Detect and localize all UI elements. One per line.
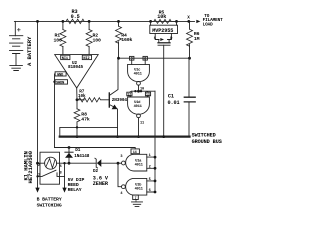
svg-text:2N3904: 2N3904 bbox=[112, 98, 128, 103]
wire mosfet gate to ground bus bbox=[163, 45, 165, 136]
svg-text:10k: 10k bbox=[157, 14, 166, 20]
transistor Q1 2N3904 bbox=[108, 93, 110, 107]
svg-text:1M: 1M bbox=[194, 36, 200, 42]
svg-text:1: 1 bbox=[149, 154, 151, 158]
pin GND box bbox=[55, 72, 66, 76]
pin 14 box bbox=[131, 149, 139, 154]
gate U1a 4011 bbox=[126, 154, 147, 171]
svg-text:3: 3 bbox=[120, 155, 122, 159]
svg-text:6: 6 bbox=[149, 189, 151, 193]
op-amp U2 818045 bbox=[55, 55, 98, 88]
svg-text:LOAD: LOAD bbox=[203, 23, 214, 28]
resistor R8 bbox=[76, 100, 78, 137]
wire emitter net lid bbox=[60, 127, 118, 136]
svg-text:4011: 4011 bbox=[135, 164, 143, 168]
svg-text:GND: GND bbox=[57, 73, 64, 77]
svg-text:47k: 47k bbox=[81, 116, 90, 122]
battery B1 A battery bbox=[14, 21, 16, 35]
svg-text:160k: 160k bbox=[121, 37, 132, 43]
svg-text:NI1: NI1 bbox=[62, 57, 68, 61]
pin 9 box bbox=[130, 56, 134, 60]
wire collector node rail bbox=[119, 57, 190, 59]
svg-text:HE721A0500: HE721A0500 bbox=[27, 150, 34, 183]
svg-text:11: 11 bbox=[140, 121, 144, 125]
svg-text:A BATTERY: A BATTERY bbox=[26, 36, 33, 66]
ground logic bbox=[136, 200, 137, 202]
transistor Q2 MVP2955 bbox=[151, 21, 177, 25]
relay switch bbox=[38, 170, 65, 176]
pin 8 box bbox=[143, 56, 147, 60]
pin 7 box bbox=[133, 195, 139, 199]
wire U1a inputs bbox=[147, 157, 155, 168]
node top rail arrow to load bbox=[196, 20, 200, 23]
svg-text:SWITCHING: SWITCHING bbox=[37, 203, 62, 209]
resistor R5 bbox=[151, 19, 177, 23]
svg-text:D1: D1 bbox=[75, 148, 81, 153]
label battery plus bbox=[17, 28, 20, 31]
resistor R3 bbox=[63, 19, 89, 23]
pin NI2 bbox=[82, 55, 91, 59]
capacitor C1 bbox=[188, 58, 190, 97]
pin NI1 bbox=[61, 55, 70, 59]
svg-text:1: 1 bbox=[38, 172, 40, 176]
node U1c out tie bbox=[130, 91, 155, 92]
svg-text:4011: 4011 bbox=[135, 188, 143, 192]
gate U1b 4011 bbox=[126, 178, 147, 195]
ground battery bbox=[10, 66, 23, 71]
svg-text:D2: D2 bbox=[93, 169, 99, 174]
diode D2 zener bbox=[69, 162, 96, 164]
svg-text:5: 5 bbox=[149, 178, 151, 182]
resistor R6 bbox=[189, 21, 191, 58]
pin SHDN box bbox=[55, 80, 67, 84]
svg-text:4011: 4011 bbox=[134, 72, 142, 76]
wire vdd rail bbox=[55, 148, 136, 149]
svg-text:4011: 4011 bbox=[134, 105, 142, 109]
wire U1d output to bus bbox=[138, 118, 140, 137]
svg-text:X: X bbox=[187, 16, 190, 21]
svg-text:4: 4 bbox=[120, 192, 123, 196]
svg-text:B BATTERY: B BATTERY bbox=[37, 197, 62, 203]
wire left bus down to B battery arrow bbox=[37, 21, 39, 187]
wire top rail bbox=[14, 20, 194, 22]
wire opamp pins to vdd rail bbox=[54, 74, 57, 148]
svg-text:1N4148: 1N4148 bbox=[74, 154, 90, 159]
gate U1c 4011 bbox=[128, 64, 150, 81]
switched ground bus bbox=[60, 135, 190, 137]
wire gates input feed bbox=[154, 91, 156, 192]
wire opamp output bbox=[76, 88, 78, 100]
pin 13 box bbox=[145, 92, 150, 96]
svg-text:RELAY: RELAY bbox=[68, 187, 82, 193]
node X bbox=[187, 20, 190, 23]
svg-text:SHDN: SHDN bbox=[56, 81, 64, 85]
resistor R4 bbox=[118, 21, 120, 58]
svg-text:14: 14 bbox=[133, 150, 137, 154]
svg-text:D: D bbox=[170, 37, 173, 41]
resistor R2 bbox=[88, 21, 90, 54]
svg-text:C1: C1 bbox=[168, 94, 174, 100]
gate U1d 4011 bbox=[128, 97, 150, 114]
svg-text:2: 2 bbox=[38, 163, 40, 167]
svg-text:ZENER: ZENER bbox=[93, 181, 109, 187]
wire B battery switching left arrow bbox=[35, 188, 39, 193]
pin 12 box bbox=[127, 92, 132, 96]
svg-text:GROUND BUS: GROUND BUS bbox=[192, 139, 222, 145]
svg-text:0.01: 0.01 bbox=[168, 100, 180, 106]
resistor R7 bbox=[77, 99, 84, 101]
resistor R1 bbox=[62, 21, 64, 54]
wire U1c output bbox=[138, 85, 140, 91]
svg-text:10k: 10k bbox=[78, 94, 86, 99]
wire U1a U1b output tie bbox=[117, 162, 120, 165]
wire B battery switching right arrow bbox=[64, 163, 66, 187]
diode D1 1N4148 bbox=[68, 148, 70, 164]
relay K1 box bbox=[40, 152, 60, 184]
svg-text:6: 6 bbox=[60, 164, 62, 168]
svg-text:100: 100 bbox=[54, 37, 63, 43]
svg-text:SWITCHED: SWITCHED bbox=[192, 132, 216, 138]
svg-text:100: 100 bbox=[93, 37, 102, 43]
svg-text:0.5: 0.5 bbox=[71, 14, 80, 20]
svg-text:818045: 818045 bbox=[68, 65, 84, 70]
svg-text:NI2: NI2 bbox=[83, 57, 89, 61]
svg-text:8: 8 bbox=[60, 170, 62, 174]
wire U1b inputs bbox=[147, 181, 155, 192]
svg-text:2: 2 bbox=[149, 165, 151, 169]
relay coil bbox=[45, 157, 57, 169]
